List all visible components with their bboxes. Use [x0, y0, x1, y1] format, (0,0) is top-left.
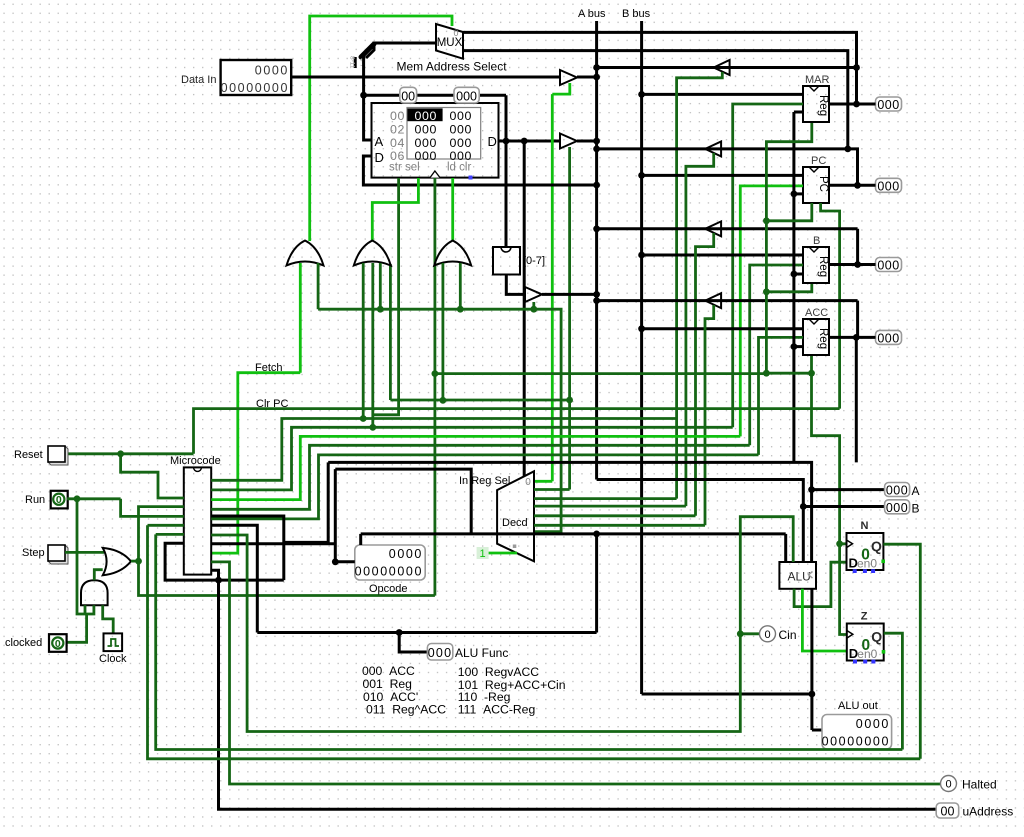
- wire B bus to B D: [642, 254, 803, 257]
- tri-state T3 B to A bus: [705, 221, 721, 236]
- junction A bus / MAR row: [593, 64, 600, 71]
- wire AND1 output to OR4 input: [94, 570, 102, 581]
- junction ACC output / drive row: [853, 334, 860, 341]
- wire PC clear down to Clr PC row: [821, 203, 840, 409]
- junction B probe: [800, 503, 807, 510]
- svg-text:[0-7]: [0-7]: [523, 255, 545, 267]
- junction A probe: [808, 486, 815, 493]
- and gate AND1 (run and clock): [81, 580, 108, 605]
- junction ALU func display branch: [593, 531, 600, 538]
- junction uaddress loop: [215, 577, 222, 584]
- clock component: [104, 633, 123, 651]
- wire MAR load from row B: [733, 104, 803, 427]
- wire N feedback into microcode: [156, 533, 184, 536]
- svg-text:000: 000: [456, 89, 477, 103]
- wire Fetch to OR1 input: [299, 263, 302, 373]
- wire enable T3 column: [696, 233, 714, 516]
- svg-text:001 Reg: 001 Reg: [363, 677, 412, 691]
- svg-text:000: 000: [428, 646, 452, 660]
- svg-text:B: B: [912, 501, 920, 515]
- svg-text:Q: Q: [871, 629, 882, 645]
- svg-text:ALU out: ALU out: [838, 700, 878, 712]
- junction memory-op row to OR3: [457, 306, 464, 313]
- or gate OR1 (MUX select): [287, 241, 324, 266]
- svg-text:clocked: clocked: [5, 637, 42, 649]
- wire Step to OR4: [65, 551, 104, 554]
- junction A bus / RAM D: [593, 138, 600, 145]
- svg-text:Halted: Halted: [962, 778, 997, 792]
- or gate OR3 (RAM ld): [434, 241, 471, 266]
- wire A bus to ALU B operand: [597, 480, 804, 563]
- bit extractor 0-7: [493, 247, 520, 275]
- wire N Q output down: [883, 544, 920, 759]
- probe A: [885, 483, 910, 497]
- wire feedback to PC pin3: [794, 192, 803, 195]
- wire ACC output down to ALU operand row: [855, 337, 858, 462]
- wire B bus feedback row: [642, 693, 812, 696]
- junction clock column / clock row: [432, 370, 439, 377]
- wire decoder output to Data In enable: [534, 480, 552, 483]
- svg-text:Reg: Reg: [817, 95, 829, 116]
- wire decoder output to T4 enable: [534, 524, 705, 527]
- svg-text:0: 0: [525, 477, 531, 488]
- wire str row: [390, 399, 569, 402]
- probe clocked: [49, 634, 67, 652]
- junction B bus / MAR D: [638, 91, 645, 98]
- buffer B2 RAM D to A bus: [560, 134, 577, 149]
- probe 000 above RAM: [454, 87, 479, 103]
- wire OR4 output to clock column: [139, 561, 435, 595]
- svg-text:D: D: [375, 150, 384, 165]
- wire MAR to A bus row: [597, 66, 857, 69]
- wire to Cin pin: [740, 632, 760, 635]
- wire ALU N flag to N flip-flop: [794, 562, 846, 606]
- svg-text:In Reg Sel: In Reg Sel: [459, 475, 510, 487]
- svg-text:Z: Z: [861, 611, 868, 623]
- wire RAM str pin down: [372, 178, 399, 415]
- svg-text:D: D: [488, 134, 497, 149]
- probe B: [885, 500, 910, 514]
- pin Cin: [760, 626, 776, 642]
- junction RAM D / decoder feed: [521, 138, 528, 145]
- wire RAM D output: [499, 140, 561, 143]
- probe B value: [876, 258, 902, 272]
- wire ALU operand row wrap: [284, 462, 328, 542]
- wire clock to ACC branch: [766, 372, 811, 375]
- wire to Opcode probe: [335, 560, 355, 563]
- wire opcode probe top stub: [359, 534, 362, 545]
- junction clock / B branch: [763, 288, 770, 295]
- tri-state T4 ACC to A bus: [705, 293, 721, 308]
- wire MUX select from OR1 to MUX: [310, 16, 452, 241]
- wire OR2 input column to str row: [389, 264, 392, 400]
- wire enable of buffer B2 from decoder: [568, 147, 571, 490]
- svg-text:B bus: B bus: [622, 8, 651, 20]
- svg-text:0: 0: [945, 779, 951, 791]
- RAM contents text: [390, 109, 472, 163]
- wire MUX input2 from PC output column: [463, 51, 848, 149]
- junction B output / drive row: [854, 261, 861, 268]
- junction clock / N flip-flop: [836, 540, 843, 547]
- junction str row / OR3: [440, 397, 447, 404]
- wire clock to PC: [766, 203, 811, 221]
- svg-text:111 ACC-Reg: 111 ACC-Reg: [458, 703, 535, 717]
- junction clock / PC branch: [763, 217, 770, 224]
- svg-text:00000000: 00000000: [221, 81, 289, 95]
- junction B bus / ACC D: [638, 325, 645, 332]
- svg-text:000: 000: [450, 109, 472, 123]
- wire buffer B2 to A bus: [577, 140, 597, 143]
- wire OR2 output to RAM sel: [372, 178, 418, 241]
- wire OR2 input from row B: [371, 263, 374, 427]
- wire B bus to ACC D: [642, 327, 803, 330]
- wire Reset to Clr PC corner: [68, 452, 194, 455]
- junction address display row: [360, 92, 367, 99]
- svg-text:Step: Step: [22, 547, 45, 559]
- junction B bus / PC D: [638, 172, 645, 179]
- wire RAM D down to decoder select: [523, 141, 526, 477]
- svg-text:MUX: MUX: [437, 37, 463, 49]
- wire PC count-enable from bright row: [740, 186, 803, 437]
- wire B bus vertical: [640, 21, 643, 694]
- wire B to A bus row: [597, 227, 858, 230]
- svg-text:000: 000: [886, 484, 908, 498]
- svg-text:B: B: [813, 235, 820, 247]
- wire uAddress net to display: [211, 570, 936, 809]
- wire microcode uaddress left loop: [165, 543, 218, 580]
- svg-text:00: 00: [401, 89, 415, 103]
- svg-text:Reset: Reset: [14, 449, 43, 461]
- wire register feedback column: [792, 112, 795, 462]
- wire decoder output to RAM buffer enable: [534, 488, 570, 491]
- wire ACC row corner to ACC output: [856, 301, 859, 338]
- svg-text:ACC: ACC: [805, 307, 828, 319]
- svg-text:02: 02: [390, 123, 405, 137]
- RAM block: [372, 103, 499, 178]
- wire 0-7 output to buffer B3: [506, 275, 525, 295]
- wire feedback to ACC pin3: [794, 345, 803, 348]
- button Step: [48, 545, 68, 564]
- splitter address 8-11 / 0-7: [361, 44, 374, 57]
- wire microcode opcode pin: [211, 542, 335, 545]
- junction clock / ACC row: [763, 370, 770, 377]
- junction ALU result / B bus feedback: [809, 691, 816, 698]
- probe 00 above RAM: [400, 87, 417, 103]
- wire splitter to RAM A input: [364, 56, 372, 140]
- wire Reset branch to microcode: [121, 454, 184, 498]
- wire Z feedback into microcode: [148, 524, 184, 527]
- wire clock up to ACC: [810, 356, 813, 373]
- wire constant 1 to decoder enable: [489, 552, 517, 555]
- svg-text:0000: 0000: [856, 717, 890, 731]
- svg-text:000: 000: [877, 331, 899, 345]
- probe MAR value: [876, 97, 902, 111]
- constant 1: [477, 547, 489, 559]
- wire RAM clock column: [433, 178, 436, 596]
- wire to A probe: [812, 488, 885, 491]
- svg-text:0: 0: [55, 638, 61, 650]
- svg-text:0: 0: [764, 629, 770, 641]
- wire address column to 0-7 extractor: [505, 95, 508, 247]
- junction Cin probe: [737, 630, 744, 637]
- svg-text:Cin: Cin: [779, 628, 797, 642]
- wire MUX output to splitter: [366, 43, 436, 58]
- wire Data In to tri-state buffer: [290, 76, 560, 79]
- mux U1 Mem Address Select: [436, 24, 463, 59]
- wire OR2 input from memory-op row: [379, 263, 382, 309]
- junction row B / OR2: [369, 424, 376, 431]
- wire OR4 to microcode advance pin: [139, 507, 184, 561]
- wire OR4 output: [131, 560, 139, 563]
- wire buffer B3 to A bus: [542, 293, 597, 296]
- wire Run into microcode pin: [121, 499, 184, 517]
- svg-text:000: 000: [450, 136, 472, 150]
- junction clock / ACC and flops: [808, 370, 815, 377]
- svg-text:0: 0: [453, 28, 458, 38]
- flip-flop Z: [847, 624, 884, 661]
- register ACC: [803, 319, 829, 355]
- button Run: [51, 491, 68, 509]
- wire microcode row C (load B): [211, 445, 750, 509]
- wire MAR output to probe: [829, 103, 876, 106]
- wire feedback to B pin3: [794, 273, 803, 276]
- junction memory-op row to OR2: [377, 306, 384, 313]
- register B: [803, 247, 829, 283]
- svg-text:000: 000: [415, 136, 437, 150]
- flip-flop N: [847, 533, 884, 570]
- junction MAR output / MUX input1: [853, 101, 860, 108]
- wire feedback to MAR pin3: [794, 111, 803, 114]
- microcode block: [184, 467, 211, 574]
- svg-text:00000000: 00000000: [822, 735, 890, 749]
- svg-text:00000000: 00000000: [355, 565, 423, 579]
- wire OR3 input from str row: [441, 263, 444, 400]
- buffer B3 0-7 to A bus: [525, 287, 542, 302]
- wire enable T2 column: [686, 153, 714, 506]
- wire enable column of Data In buffer: [551, 94, 554, 481]
- svg-text:PC: PC: [811, 155, 826, 167]
- svg-text:Clock: Clock: [99, 653, 127, 665]
- svg-text:000: 000: [877, 98, 899, 112]
- junction enable B3 on memory-op row: [530, 306, 537, 313]
- decoder Decd: [497, 471, 534, 561]
- wire clocked probe to AND1: [67, 614, 86, 642]
- svg-text:ld clr: ld clr: [447, 162, 471, 174]
- wire microcode bright row (inc PC): [211, 436, 740, 499]
- tri-state T1 MAR to A bus: [714, 60, 730, 75]
- junction row A / OR2: [360, 415, 367, 422]
- svg-text:A: A: [912, 484, 920, 498]
- wire enable of buffer B1: [552, 83, 570, 94]
- wire clock stub to N flip-flop: [840, 542, 847, 545]
- svg-text:Run: Run: [25, 494, 45, 506]
- svg-text:000: 000: [450, 123, 472, 137]
- svg-text:Mem Address Select: Mem Address Select: [397, 60, 508, 74]
- svg-text:0000: 0000: [389, 547, 423, 561]
- wire Z feedback bottom row to microcode: [156, 534, 903, 749]
- button Reset: [48, 446, 68, 465]
- wire microcode row D (load ACC): [211, 455, 758, 519]
- wire OR2 input from row A: [362, 263, 365, 419]
- svg-text:A bus: A bus: [578, 8, 606, 20]
- wire ALU result down: [810, 589, 813, 730]
- wire PC output to probe: [829, 184, 876, 187]
- wire OR3 output to RAM ld: [451, 178, 454, 241]
- svg-text:Microcode: Microcode: [170, 455, 221, 467]
- text table ALU functions: [362, 664, 566, 717]
- wire PC row corner to PC output: [848, 149, 858, 185]
- svg-text:011 Reg^ACC: 011 Reg^ACC: [366, 703, 446, 717]
- wire microcode pin to ALU func row: [211, 525, 257, 632]
- svg-text:A: A: [375, 134, 384, 149]
- junction A bus / opcode read: [593, 291, 600, 298]
- or gate OR4 (step or clock): [103, 548, 131, 575]
- junction B bus / B D: [638, 252, 645, 259]
- wire ACC load from row D: [759, 337, 804, 455]
- wire ALU result to ALU out probe: [812, 729, 823, 732]
- probe ALU Func: [427, 644, 452, 661]
- wire Clock output to AND1: [103, 605, 114, 633]
- wire ALU function row: [361, 532, 786, 535]
- wire N feedback bottom row to microcode: [148, 525, 921, 759]
- wire clock to B: [766, 284, 811, 292]
- wire B output to probe: [829, 263, 876, 266]
- junction PC row / MUX input2: [844, 146, 851, 153]
- register PC: [803, 167, 829, 203]
- wire MUX input1 from MAR output column: [463, 32, 857, 104]
- wire memory-op row from decoder: [318, 309, 561, 531]
- wire B bus to MAR D: [642, 93, 803, 96]
- svg-text:Q: Q: [871, 538, 882, 554]
- wire A bus to RAM D input: [363, 156, 596, 185]
- junction RAM D / 0-7 splitter feed: [503, 138, 510, 145]
- wire microcode row B (load MAR): [211, 427, 733, 490]
- junction A bus / B row: [593, 225, 600, 232]
- wire to B probe: [803, 505, 884, 508]
- probe Opcode: [355, 545, 425, 580]
- wire address display row: [364, 94, 506, 97]
- junction A bus / RAM D input: [593, 182, 600, 189]
- wire opcode column: [334, 469, 337, 562]
- svg-text:ALU: ALU: [788, 570, 811, 584]
- svg-text:000 ACC: 000 ACC: [362, 664, 415, 678]
- junction A bus / PC row: [593, 146, 600, 153]
- wire clock down to N and Z flip-flops: [812, 373, 847, 634]
- wire enable T4 column: [705, 305, 714, 525]
- wire Run to microcode: [67, 497, 121, 500]
- junction opcode column / probe: [332, 558, 339, 565]
- wire AND1 input stub: [84, 605, 87, 614]
- wire A bus vertical: [595, 21, 598, 480]
- svg-text:00: 00: [941, 804, 955, 818]
- wire buffer B1 output to A bus: [577, 76, 597, 79]
- svg-text:MAR: MAR: [805, 74, 830, 86]
- svg-text:04: 04: [390, 136, 405, 150]
- wire to ALU Func probe: [399, 633, 427, 653]
- svg-text:str sel: str sel: [389, 162, 420, 174]
- wire Halted net: [211, 562, 940, 784]
- svg-text:Data In: Data In: [181, 74, 216, 86]
- register MAR: [803, 86, 829, 122]
- svg-text:ALU Func: ALU Func: [455, 646, 508, 660]
- pin Halted: [941, 776, 957, 792]
- probe ALU out: [822, 715, 892, 750]
- svg-text:en0: en0: [857, 647, 877, 661]
- probe uAddress: [936, 803, 959, 818]
- svg-text:Opcode: Opcode: [369, 583, 408, 595]
- wire opcode row to ALU func path: [335, 469, 471, 533]
- svg-text:Decd: Decd: [502, 517, 528, 529]
- svg-text:000: 000: [415, 123, 437, 137]
- wire loop row extension: [219, 579, 284, 582]
- wire B bus to PC D: [642, 174, 803, 177]
- svg-text:100 RegvACC: 100 RegvACC: [458, 665, 539, 679]
- svg-text:Reg: Reg: [817, 328, 829, 349]
- wire decoder output to T1 enable: [534, 497, 677, 500]
- svg-text:Reg: Reg: [817, 256, 829, 277]
- junction Reset branch: [117, 450, 124, 457]
- svg-text:en0: en0: [857, 557, 877, 571]
- svg-text:000: 000: [415, 109, 437, 123]
- wire ALU operand A row: [328, 462, 811, 562]
- svg-text:0000: 0000: [255, 64, 289, 78]
- wire Fetch from microcode to OR1: [211, 373, 300, 553]
- probe PC value: [876, 178, 902, 192]
- wire ALU Z flag to Z flip-flop: [802, 589, 846, 651]
- svg-text:00: 00: [390, 109, 405, 123]
- tri-state T2 PC to A bus: [705, 142, 721, 157]
- junction ALU func probe branch: [396, 629, 403, 636]
- svg-text:N: N: [861, 520, 869, 532]
- junction str row / decoder column: [566, 397, 573, 404]
- svg-text:PC: PC: [817, 176, 829, 192]
- svg-text:0: 0: [56, 494, 62, 506]
- wire decoder output to T3 enable: [534, 514, 696, 517]
- wire Clr PC row: [194, 409, 840, 454]
- wire Run down to AND1 input: [77, 499, 94, 614]
- wire decoder output to T2 enable: [534, 505, 686, 508]
- junction feedback column / ACC: [791, 343, 798, 350]
- wire PC to A bus row: [597, 147, 848, 150]
- svg-text:000: 000: [886, 501, 908, 515]
- svg-text:uAddress: uAddress: [963, 805, 1014, 819]
- wire enable of buffer B3: [532, 302, 535, 309]
- input pin Data In: [221, 60, 292, 95]
- wire OR3 input from memory-op row: [459, 263, 462, 309]
- junction OR4 output: [135, 558, 142, 565]
- junction A bus / Data In: [593, 74, 600, 81]
- wire ALU func column: [595, 534, 598, 633]
- wire ALU function into ALU: [784, 534, 787, 562]
- wire ACC output to probe: [830, 336, 876, 339]
- wire enable T1 column: [677, 72, 723, 499]
- wire clock to MAR: [766, 123, 811, 373]
- junction feedback column / B: [791, 271, 798, 278]
- junction PC output / MUX input2 column: [854, 182, 861, 189]
- svg-text:000: 000: [877, 259, 899, 273]
- wire Z Q output down: [884, 633, 903, 749]
- wire microcode row A (mem read): [211, 419, 676, 481]
- junction Run branch: [74, 495, 81, 502]
- alu ALU1: [779, 562, 816, 589]
- wire clock row to registers: [435, 372, 767, 375]
- wire OR1 input from memory-op row: [317, 263, 320, 309]
- buffer B1 Data In to A bus: [560, 70, 577, 85]
- probe ACC value: [876, 330, 902, 344]
- svg-text:1: 1: [480, 548, 486, 560]
- wire ALU func bottom row: [257, 631, 596, 634]
- junction A bus / ACC row: [593, 297, 600, 304]
